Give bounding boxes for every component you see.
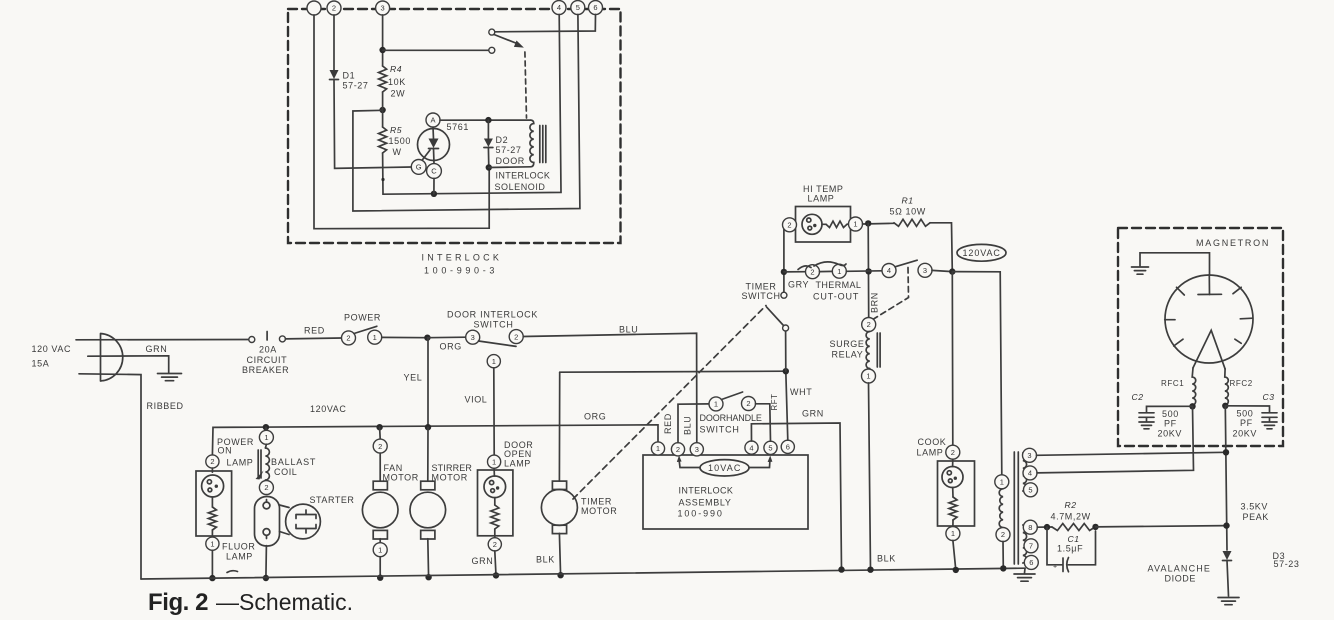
svg-text:BREAKER: BREAKER bbox=[242, 365, 289, 375]
svg-text:POWER: POWER bbox=[344, 313, 381, 323]
svg-text:3: 3 bbox=[923, 266, 927, 275]
svg-text:2: 2 bbox=[210, 457, 214, 466]
svg-text:FAN: FAN bbox=[384, 463, 403, 473]
diode D1 57-27 bbox=[330, 70, 339, 79]
svg-text:Fig. 2: Fig. 2 bbox=[148, 589, 209, 616]
svg-text:120 VAC: 120 VAC bbox=[32, 344, 72, 354]
svg-text:1500: 1500 bbox=[389, 136, 411, 146]
svg-text:10VAC: 10VAC bbox=[708, 463, 741, 473]
svg-text:4: 4 bbox=[557, 3, 561, 12]
dashed link: switch blade to surge relay bbox=[870, 268, 909, 322]
wire: starter to bottom bus bbox=[265, 546, 268, 579]
terminal 1 bbox=[206, 537, 219, 550]
svg-text:1: 1 bbox=[492, 457, 496, 466]
svg-text:CUT-OUT: CUT-OUT bbox=[813, 291, 859, 301]
svg-text:RFC2: RFC2 bbox=[1230, 379, 1253, 388]
svg-text:BLU: BLU bbox=[619, 325, 638, 335]
svg-text:INTERLOCK: INTERLOCK bbox=[422, 253, 500, 263]
wire: terminal 1 down, right, up to D2 cathode node bbox=[314, 15, 489, 229]
svg-text:2: 2 bbox=[514, 332, 518, 341]
wire: R1 right, down to 120VAC node bbox=[930, 223, 952, 272]
svg-text:15A: 15A bbox=[32, 359, 50, 369]
svg-text:R5: R5 bbox=[390, 125, 402, 135]
svg-text:RED: RED bbox=[304, 326, 325, 336]
wire: C to junction bbox=[433, 178, 435, 193]
dashed mechanical link: timer motor to timer switch bbox=[573, 306, 766, 500]
AC plug 120VAC 15A bbox=[101, 334, 123, 382]
svg-text:2: 2 bbox=[810, 267, 814, 276]
ballast terminal 2 bbox=[259, 481, 273, 495]
svg-text:—Schematic.: —Schematic. bbox=[216, 589, 353, 615]
wire: power switch to YEL node bbox=[382, 336, 428, 338]
svg-text:4.7M,2W: 4.7M,2W bbox=[1051, 512, 1091, 522]
svg-text:1: 1 bbox=[1000, 478, 1004, 487]
interlock detail box 100-990-3 dashed border bbox=[288, 9, 621, 243]
svg-text:W: W bbox=[393, 147, 402, 157]
node: junction below SCR cathode C bbox=[431, 191, 437, 197]
svg-text:A: A bbox=[430, 116, 435, 125]
stray pen mark bbox=[227, 571, 238, 573]
wire: surge relay to bottom bus bbox=[869, 383, 871, 570]
svg-text:INTERLOCK: INTERLOCK bbox=[679, 486, 734, 496]
svg-text:1: 1 bbox=[853, 220, 857, 229]
wire: 120VAC node right and down to transformer primary bbox=[952, 272, 1002, 475]
svg-text:1: 1 bbox=[264, 433, 268, 442]
svg-text:2: 2 bbox=[951, 448, 955, 457]
SCR gate lead bbox=[422, 150, 431, 161]
svg-text:ORG: ORG bbox=[584, 412, 606, 422]
diode D2 57-27 DOOR bbox=[487, 120, 489, 138]
transformer ground bbox=[1024, 568, 1027, 573]
terminal 4 (interlock detail) bbox=[552, 1, 566, 15]
cathode terminal C bbox=[427, 164, 442, 179]
magnetron tube bbox=[1165, 275, 1253, 363]
wire: junction left-down bypass to terminal 5 row bbox=[353, 15, 580, 212]
svg-text:3: 3 bbox=[1027, 451, 1031, 460]
thermal cut-out bbox=[806, 265, 820, 279]
terminal 6 (interlock detail) bbox=[589, 1, 603, 15]
svg-text:MOTOR: MOTOR bbox=[432, 473, 468, 483]
svg-text:20KV: 20KV bbox=[1158, 429, 1182, 439]
starter capsule bbox=[255, 497, 280, 547]
svg-text:RELAY: RELAY bbox=[832, 350, 864, 360]
svg-text:57-23: 57-23 bbox=[1274, 559, 1300, 569]
svg-text:DOORHANDLE: DOORHANDLE bbox=[700, 413, 763, 423]
node: YEL junction bbox=[424, 335, 430, 341]
svg-text:ASSEMBLY: ASSEMBLY bbox=[679, 498, 732, 508]
doorhandle switch bbox=[709, 397, 723, 411]
node: junction R4/R5 bbox=[379, 107, 385, 113]
starter capacitor bbox=[286, 504, 321, 539]
terminal 1 (interlock detail) bbox=[307, 1, 321, 15]
svg-text:BALLAST: BALLAST bbox=[271, 457, 316, 467]
relay switch (operated by solenoid) upper contact bbox=[489, 29, 495, 35]
svg-text:2: 2 bbox=[493, 540, 497, 549]
anode terminal A bbox=[426, 113, 440, 127]
svg-text:2: 2 bbox=[746, 399, 750, 408]
svg-text:2: 2 bbox=[346, 334, 350, 343]
wire: timer switch contact up to GRY node, lamp terminal 2 bbox=[784, 225, 790, 292]
svg-text:RFT: RFT bbox=[770, 394, 779, 411]
magnetron dashed box bbox=[1118, 228, 1283, 446]
svg-text:FLUOR: FLUOR bbox=[222, 542, 256, 552]
switch blade with arrowhead bbox=[494, 35, 520, 45]
terminal 5 (interlock detail) bbox=[571, 1, 585, 15]
wire: node to door interlock switch bbox=[427, 336, 465, 339]
svg-text:THERMAL: THERMAL bbox=[816, 280, 862, 290]
resistor R4 10K 2W bbox=[379, 66, 387, 92]
svg-text:LAMP: LAMP bbox=[226, 552, 253, 562]
wire: node right to relay switch lower contact bbox=[383, 49, 489, 51]
secondary windings bbox=[1023, 453, 1027, 491]
door interlock switch lamp terminal 1 bbox=[487, 355, 500, 368]
svg-text:VIOL: VIOL bbox=[465, 395, 488, 405]
assembly terminal 4 bbox=[745, 441, 758, 454]
svg-text:4: 4 bbox=[1028, 469, 1032, 478]
wire: RFC2 node down through 3.5KV node bbox=[1225, 406, 1227, 550]
svg-text:COIL: COIL bbox=[274, 467, 297, 477]
assembly terminal 1 bbox=[651, 442, 664, 455]
svg-text:C1: C1 bbox=[1068, 534, 1080, 544]
svg-text:D2: D2 bbox=[496, 135, 509, 145]
node: D2 cathode junction bbox=[486, 164, 492, 170]
svg-text:1: 1 bbox=[714, 400, 718, 409]
svg-text:G: G bbox=[416, 163, 422, 172]
secondary terminals bbox=[1023, 448, 1037, 462]
svg-text:C: C bbox=[431, 167, 437, 176]
interlock solenoid coil bbox=[489, 120, 534, 167]
svg-text:GRY: GRY bbox=[788, 280, 809, 290]
wire: terminal 2 down to D1 bbox=[333, 15, 335, 70]
wire: 120VAC node down to cook lamp bbox=[951, 272, 954, 446]
svg-text:6: 6 bbox=[786, 443, 790, 452]
fan motor terminal 2 bbox=[379, 427, 382, 439]
svg-text:+: + bbox=[1053, 564, 1058, 571]
ground (mains) bbox=[158, 373, 182, 375]
svg-text:100-990-3: 100-990-3 bbox=[424, 266, 495, 276]
wire: R2 to 3.5KV node bbox=[1096, 526, 1227, 527]
transformer core bbox=[1013, 452, 1015, 564]
svg-text:3.5KV: 3.5KV bbox=[1241, 502, 1269, 512]
svg-text:1: 1 bbox=[210, 539, 214, 548]
assembly terminal 6 bbox=[781, 440, 794, 453]
lamp bulb bbox=[202, 475, 224, 497]
wire: hot prong to circuit breaker bbox=[76, 339, 249, 341]
svg-text:1: 1 bbox=[373, 333, 377, 342]
svg-text:DOOR INTERLOCK: DOOR INTERLOCK bbox=[447, 310, 538, 320]
SCR V5761 envelope bbox=[418, 129, 450, 161]
wire: 120VAC bus bbox=[212, 425, 658, 455]
arrows from 10VAC to terminals 2 and 5 bbox=[679, 459, 700, 468]
svg-text:2: 2 bbox=[332, 4, 336, 13]
lower contact bbox=[489, 47, 495, 53]
svg-text:TIMER: TIMER bbox=[581, 497, 612, 507]
svg-text:STIRRER: STIRRER bbox=[432, 463, 473, 473]
svg-text:ORG: ORG bbox=[440, 342, 462, 352]
cathode stem and bar bbox=[1208, 275, 1210, 295]
capacitor C1 1.5uF loop bbox=[1047, 527, 1096, 572]
svg-text:120VAC: 120VAC bbox=[963, 248, 1001, 258]
svg-text:120VAC: 120VAC bbox=[310, 404, 346, 414]
svg-text:5: 5 bbox=[1028, 486, 1032, 495]
svg-text:SWITCH: SWITCH bbox=[474, 320, 514, 330]
svg-text:RED: RED bbox=[663, 413, 673, 434]
anode vane ticks bbox=[1177, 287, 1185, 295]
interlock assembly box 100-990 bbox=[643, 455, 808, 529]
svg-text:COOK: COOK bbox=[918, 437, 947, 447]
svg-text:2: 2 bbox=[264, 483, 268, 492]
wire YEL down to 120VAC bus bbox=[427, 338, 429, 428]
svg-text:57-27: 57-27 bbox=[343, 81, 369, 91]
svg-text:SWITCH: SWITCH bbox=[742, 291, 781, 301]
svg-text:TIMER: TIMER bbox=[746, 282, 777, 292]
magnetron anode ground bbox=[1140, 253, 1210, 275]
dashed mechanical link solenoid to switch bbox=[525, 52, 527, 118]
svg-text:MAGNETRON: MAGNETRON bbox=[1196, 238, 1269, 248]
svg-text:PF: PF bbox=[1240, 418, 1253, 428]
wire: neutral prong RIBBED down left side bbox=[79, 374, 141, 579]
svg-text:2: 2 bbox=[378, 442, 382, 451]
node: junction below terminal 3 bbox=[379, 47, 385, 53]
wire: secondary 4 to RFC1 node bbox=[1037, 406, 1194, 473]
svg-text:3: 3 bbox=[381, 4, 385, 13]
svg-text:1: 1 bbox=[951, 529, 955, 538]
node: WHT junction bbox=[783, 368, 789, 374]
svg-text:BLK: BLK bbox=[877, 554, 896, 564]
surge relay switch 4-3 bbox=[882, 264, 896, 278]
wire: cathode row from R5 through C junction to terminal 4 bbox=[383, 15, 561, 195]
node: GRY junction bbox=[781, 269, 787, 275]
wire: bottom neutral bus bbox=[141, 568, 1025, 579]
node: D2 anode junction bbox=[485, 117, 491, 123]
svg-text:2: 2 bbox=[787, 221, 791, 230]
svg-text:100-990: 100-990 bbox=[678, 509, 723, 519]
svg-text:20KV: 20KV bbox=[1233, 429, 1257, 439]
terminal 3 (interlock detail) bbox=[376, 1, 390, 15]
assembly terminal 2 bbox=[671, 443, 684, 456]
svg-text:LAMP: LAMP bbox=[504, 458, 531, 468]
svg-text:STARTER: STARTER bbox=[310, 495, 355, 505]
wire: row to thermal cutout bbox=[784, 271, 806, 273]
fluor lamp box bbox=[196, 471, 232, 536]
svg-text:LAMP: LAMP bbox=[917, 448, 944, 458]
svg-text:YEL: YEL bbox=[404, 373, 423, 383]
svg-text:10K: 10K bbox=[388, 77, 406, 87]
svg-text:MOTOR: MOTOR bbox=[581, 506, 617, 516]
svg-text:WHT: WHT bbox=[790, 387, 812, 397]
svg-text:D1: D1 bbox=[343, 71, 356, 81]
svg-text:RIBBED: RIBBED bbox=[147, 401, 184, 411]
svg-text:500: 500 bbox=[1237, 409, 1254, 419]
svg-text:CIRCUIT: CIRCUIT bbox=[247, 355, 288, 365]
svg-text:2W: 2W bbox=[391, 89, 406, 99]
svg-text:2: 2 bbox=[1001, 530, 1005, 539]
wire: D1 down, corner right to SCR gate G bbox=[334, 80, 412, 169]
svg-text:BLK: BLK bbox=[536, 555, 555, 565]
svg-text:C3: C3 bbox=[1263, 392, 1275, 402]
wire: breaker to power switch bbox=[285, 337, 341, 340]
SCR anode lead and arrow bbox=[432, 127, 435, 139]
gate terminal G bbox=[411, 160, 426, 175]
HV transformer primary bbox=[995, 475, 1009, 489]
wire RED: terminal 2 up to doorhandle switch 1 bbox=[678, 404, 709, 443]
svg-text:5Ω 10W: 5Ω 10W bbox=[890, 207, 926, 217]
svg-text:6: 6 bbox=[1029, 558, 1033, 567]
wire: upper contact to terminal 6 bbox=[495, 15, 596, 32]
svg-text:ON: ON bbox=[218, 446, 233, 456]
svg-text:HI TEMP: HI TEMP bbox=[803, 184, 844, 194]
wire: R5 down to cathode row bbox=[382, 153, 384, 194]
svg-text:DIODE: DIODE bbox=[1165, 574, 1197, 584]
ballast coil bbox=[265, 444, 266, 448]
node: R1 junction bbox=[865, 220, 871, 226]
svg-text:SURGE: SURGE bbox=[830, 339, 865, 349]
svg-text:1.5μF: 1.5μF bbox=[1057, 544, 1083, 554]
circuit breaker 20A bbox=[249, 337, 255, 343]
svg-text:SWITCH: SWITCH bbox=[700, 425, 740, 435]
svg-text:RFC1: RFC1 bbox=[1161, 379, 1184, 388]
wire: lamp 1 to R1 bbox=[863, 222, 895, 225]
svg-text:8: 8 bbox=[1028, 523, 1032, 532]
svg-text:GRN: GRN bbox=[472, 556, 494, 566]
svg-text:20A: 20A bbox=[259, 345, 277, 355]
svg-text:GRN: GRN bbox=[802, 409, 824, 419]
wire: terminal 8 to R2 bbox=[1037, 526, 1052, 528]
wire WHT: timer motor top right to timer switch junction bbox=[560, 371, 786, 372]
wire: doorhandle 2 to terminal 5 bbox=[756, 404, 771, 441]
svg-text:R1: R1 bbox=[902, 196, 914, 206]
svg-text:5: 5 bbox=[768, 444, 772, 453]
120VAC oval label bbox=[957, 244, 1006, 261]
svg-text:57-27: 57-27 bbox=[496, 145, 522, 155]
wire: R4 to R5 bbox=[382, 92, 384, 127]
svg-text:5: 5 bbox=[576, 3, 580, 12]
assembly terminal 3 bbox=[690, 443, 703, 456]
10VAC oval bbox=[700, 460, 749, 476]
svg-text:5761: 5761 bbox=[447, 122, 469, 132]
svg-text:R2: R2 bbox=[1065, 500, 1077, 510]
assembly terminal 5 bbox=[764, 441, 777, 454]
power on / fluor lamp terminal 2 bbox=[206, 455, 219, 468]
node: thermal cutout / BRN junction bbox=[865, 268, 871, 274]
resistor R5 1500 W bbox=[379, 127, 387, 153]
svg-text:6: 6 bbox=[593, 3, 597, 12]
fan terminal 1 bbox=[373, 543, 387, 557]
svg-text:R4: R4 bbox=[390, 64, 402, 74]
wire: secondary 3 to RFC2 node bbox=[1037, 452, 1227, 455]
ballast coil terminal 1 bbox=[265, 427, 268, 430]
wire WHT: terminal 6 up to timer switch junction bbox=[786, 371, 788, 440]
wire VIOL down to door open lamp bbox=[493, 368, 495, 455]
svg-text:4: 4 bbox=[887, 266, 891, 275]
svg-text:2: 2 bbox=[676, 445, 680, 454]
svg-text:500: 500 bbox=[1162, 409, 1179, 419]
svg-text:3: 3 bbox=[471, 333, 475, 342]
avalanche diode D3 57-23 bbox=[1223, 551, 1232, 560]
svg-text:PF: PF bbox=[1164, 419, 1177, 429]
svg-text:1: 1 bbox=[656, 444, 660, 453]
svg-text:3: 3 bbox=[695, 445, 699, 454]
svg-text:BLU: BLU bbox=[683, 416, 693, 435]
svg-text:DOOR: DOOR bbox=[496, 156, 525, 166]
svg-text:SOLENOID: SOLENOID bbox=[495, 182, 546, 192]
wire BLU: door interlock switch to interlock assembly 3 bbox=[523, 333, 697, 443]
node: 120VAC junction bbox=[949, 268, 955, 274]
svg-text:7: 7 bbox=[1029, 542, 1033, 551]
svg-text:LAMP: LAMP bbox=[227, 458, 254, 468]
fan motor bbox=[379, 453, 381, 481]
svg-text:2: 2 bbox=[867, 320, 871, 329]
filament V bbox=[1193, 330, 1225, 369]
wire: A row to D2 and solenoid bbox=[440, 119, 531, 121]
svg-text:LAMP: LAMP bbox=[808, 194, 835, 204]
svg-text:GRN: GRN bbox=[146, 344, 168, 354]
wire GRN: terminal 4 up, right, down to neutral bus bbox=[751, 423, 841, 570]
svg-text:1: 1 bbox=[837, 267, 841, 276]
terminal 2 (interlock detail) bbox=[327, 1, 341, 15]
svg-text:4: 4 bbox=[749, 443, 753, 452]
svg-text:C2: C2 bbox=[1132, 392, 1144, 402]
svg-text:AVALANCHE: AVALANCHE bbox=[1148, 564, 1211, 574]
svg-text:1: 1 bbox=[866, 372, 870, 381]
svg-text:INTERLOCK: INTERLOCK bbox=[496, 171, 551, 181]
svg-text:PEAK: PEAK bbox=[1243, 512, 1269, 522]
wire to bottom bus bbox=[211, 550, 213, 578]
wire: terminal 3 down to node bbox=[382, 15, 384, 66]
wire: ground prong to ground bbox=[88, 356, 169, 373]
lamp resistor bbox=[208, 507, 216, 530]
svg-text:1: 1 bbox=[378, 545, 382, 554]
svg-text:BRN: BRN bbox=[870, 292, 880, 313]
wire BRN: junction down to surge relay bbox=[867, 223, 870, 317]
svg-text:1: 1 bbox=[492, 357, 496, 366]
